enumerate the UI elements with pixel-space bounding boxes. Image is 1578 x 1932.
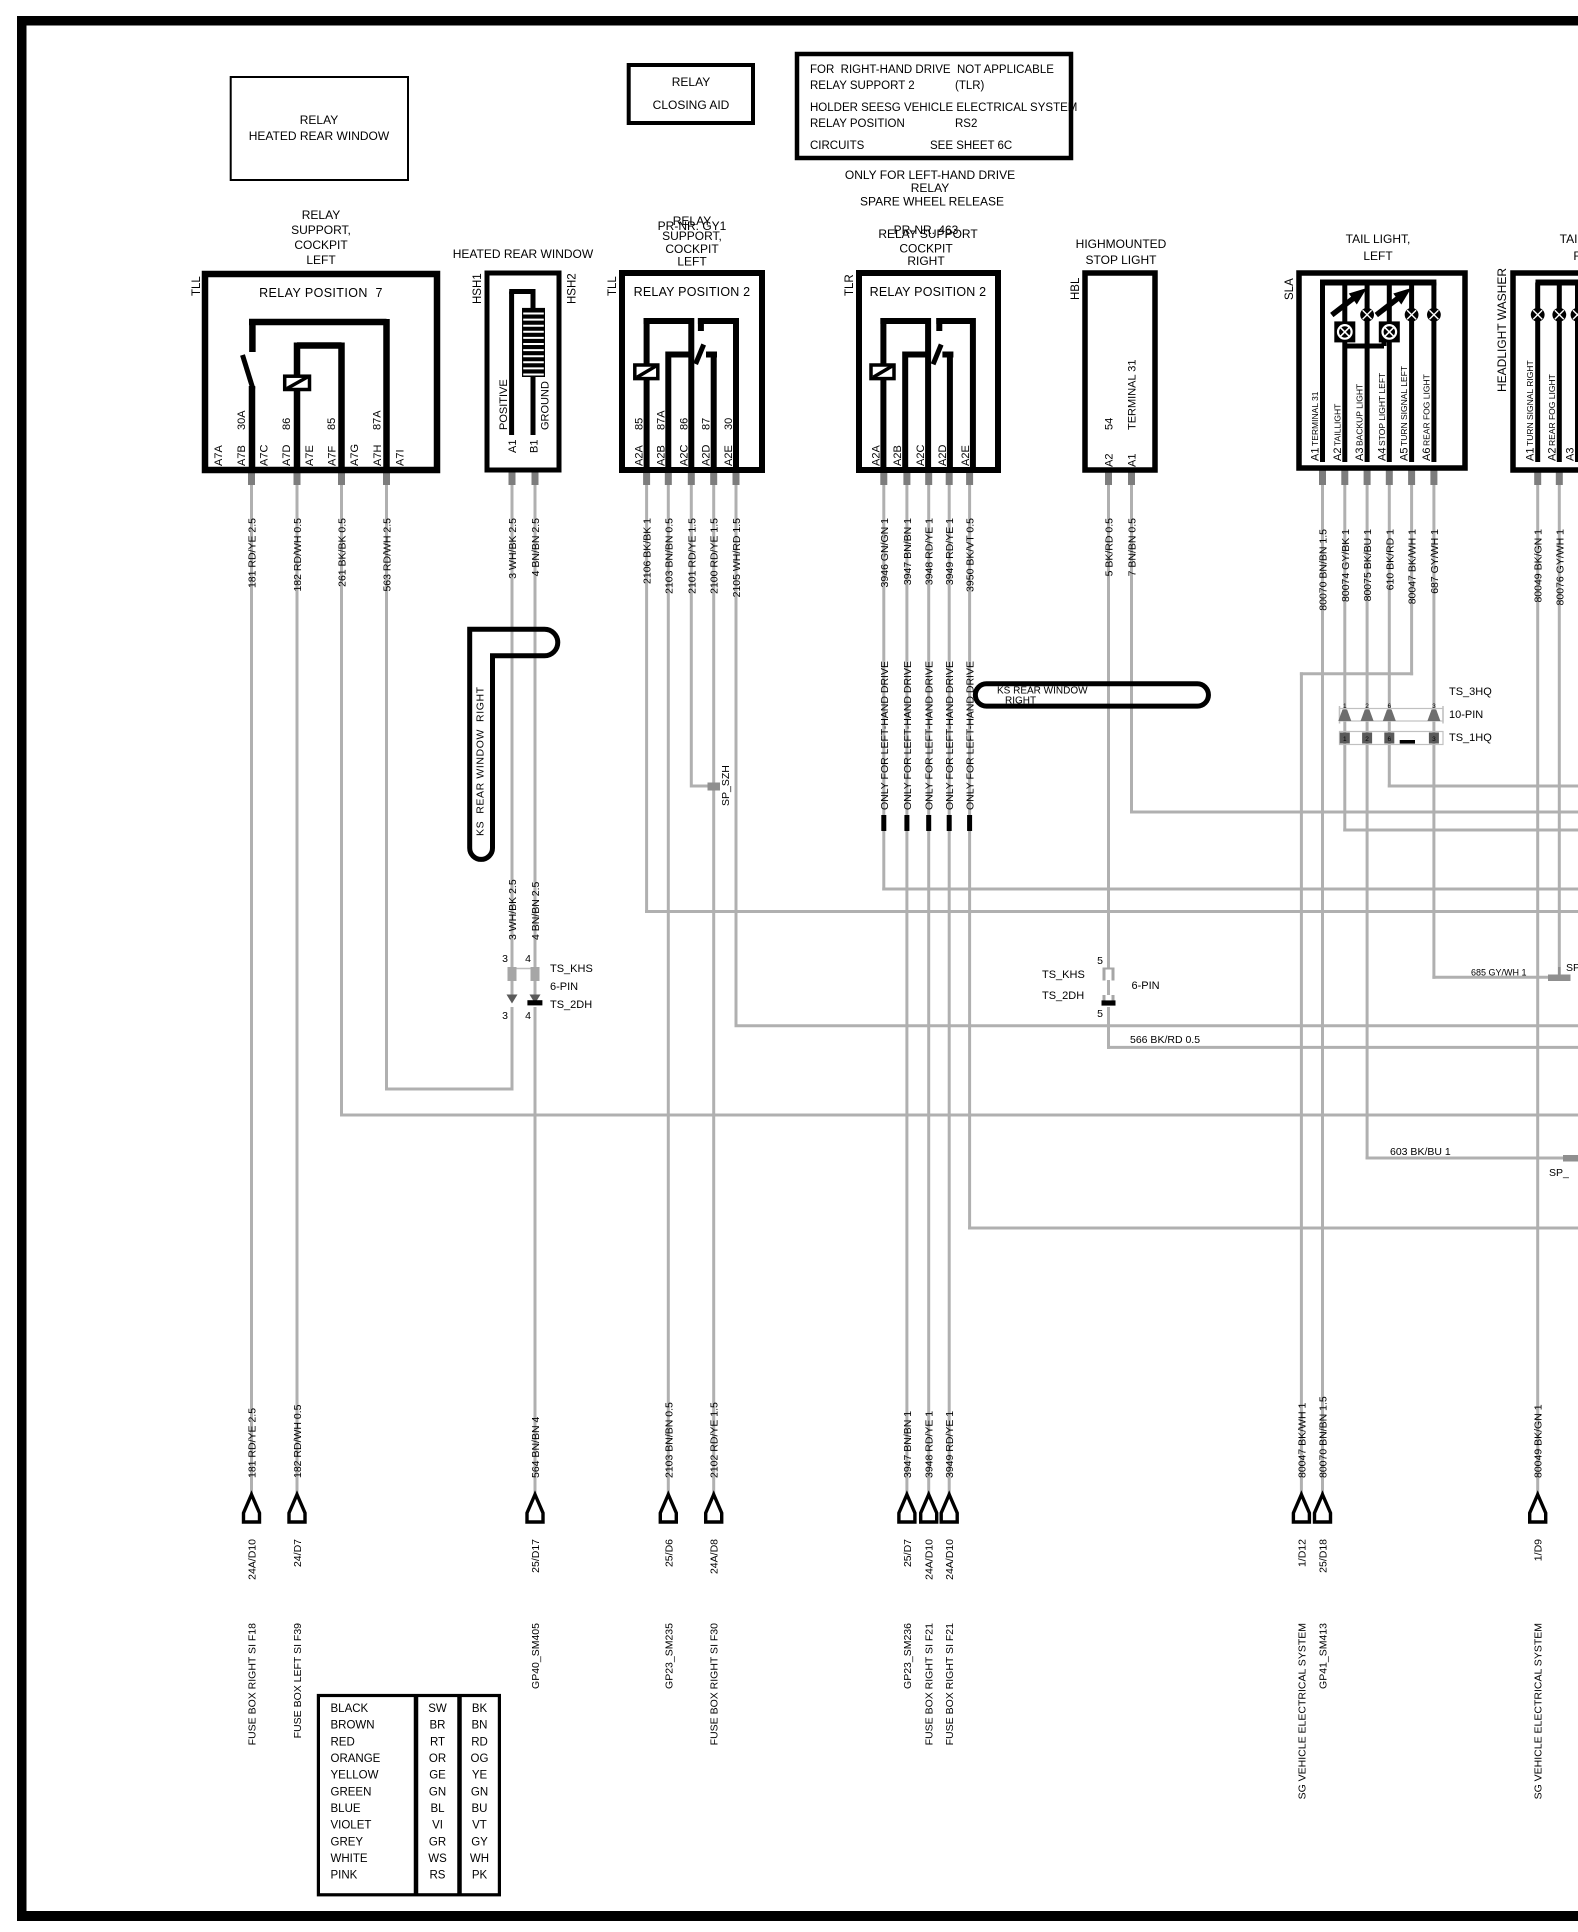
svg-text:5: 5 [1097, 955, 1103, 967]
svg-text:86: 86 [281, 418, 293, 430]
wire 610 BK/RD vertical+horizontal [1388, 484, 1391, 788]
pin line A3 SLA [1365, 283, 1370, 463]
turn signal arrow A2 [1332, 298, 1354, 315]
svg-text:RELAY POSITION 7: RELAY POSITION 7 [259, 286, 383, 300]
pin line A6 SLA [1431, 283, 1436, 463]
splice 603 right edge [1563, 1155, 1578, 1162]
svg-text:FUSE BOX RIGHT SI F30: FUSE BOX RIGHT SI F30 [709, 1623, 721, 1745]
svg-text:3950 BK/VT 0.5: 3950 BK/VT 0.5 [965, 518, 977, 592]
connector TS_2DH 3/4 [507, 995, 518, 1004]
svg-text:A2A: A2A [634, 445, 646, 466]
svg-text:FUSE BOX LEFT SI F39: FUSE BOX LEFT SI F39 [292, 1623, 304, 1739]
svg-text:CIRCUITS: CIRCUITS [810, 140, 865, 152]
svg-text:30: 30 [723, 418, 735, 430]
svg-text:GR: GR [429, 1836, 446, 1848]
backup light bulb A3 [1360, 308, 1374, 322]
svg-text:24A/D8: 24A/D8 [709, 1539, 721, 1574]
note box relay heated rear window [231, 77, 408, 180]
svg-text:261 BK/BK 0.5: 261 BK/BK 0.5 [337, 518, 349, 587]
connector TS_KHS 5 [1103, 968, 1106, 981]
svg-text:TURN SIGNAL LEFT: TURN SIGNAL LEFT [1399, 366, 1409, 446]
wire 5 BK/RD vertical [1107, 484, 1110, 968]
svg-text:A2E: A2E [723, 445, 735, 466]
svg-text:SEE SHEET 6C: SEE SHEET 6C [930, 140, 1012, 152]
wire 182 RD/WH vertical [296, 484, 299, 1496]
svg-text:24A/D10: 24A/D10 [944, 1539, 956, 1580]
contact 87A box3 [666, 352, 692, 358]
svg-text:3947 BN/BN 1: 3947 BN/BN 1 [902, 1411, 914, 1478]
box TLL relay position 7 [205, 274, 437, 470]
coil box1 [285, 376, 310, 389]
svg-text:3: 3 [1432, 736, 1436, 743]
svg-text:RELAY: RELAY [300, 113, 338, 127]
svg-text:2103 BN/BN 0.5: 2103 BN/BN 0.5 [663, 518, 675, 594]
svg-text:A2C: A2C [915, 445, 927, 466]
coil circuit box4 [880, 318, 886, 467]
svg-text:HEATED REAR WINDOW: HEATED REAR WINDOW [453, 247, 594, 261]
svg-text:HIGHMOUNTED: HIGHMOUNTED [1076, 237, 1167, 251]
svg-text:A3: A3 [1565, 448, 1577, 461]
svg-text:A3: A3 [1354, 448, 1366, 461]
svg-text:2103 BN/BN 0.5: 2103 BN/BN 0.5 [663, 1402, 675, 1478]
contact 87 box4 [942, 352, 953, 358]
svg-text:SW: SW [428, 1703, 447, 1715]
svg-text:A7A: A7A [213, 445, 225, 466]
svg-text:181 RD/YE 2.5: 181 RD/YE 2.5 [247, 518, 259, 588]
pin line A4 SLA [1387, 283, 1392, 463]
svg-text:A2B: A2B [655, 445, 667, 466]
wire 80047 BK/WH vertical jog left and down [1410, 484, 1413, 675]
svg-text:RIGHT: RIGHT [1573, 249, 1578, 263]
svg-text:TLL: TLL [191, 276, 203, 296]
svg-text:7 BN/BN 0.5: 7 BN/BN 0.5 [1127, 518, 1139, 577]
svg-text:ONLY FOR LEFT-HAND DRIVE: ONLY FOR LEFT-HAND DRIVE [965, 661, 977, 810]
svg-text:A2D: A2D [701, 445, 713, 466]
svg-text:ONLY FOR LEFT-HAND DRIVE: ONLY FOR LEFT-HAND DRIVE [845, 168, 1015, 182]
turn signal bulb A5 [1405, 308, 1419, 322]
svg-text:30A: 30A [236, 410, 248, 430]
svg-text:REAR FOG LIGHT: REAR FOG LIGHT [1421, 374, 1431, 446]
svg-text:TS_3HQ: TS_3HQ [1449, 686, 1492, 698]
turn signal bulb right A1 [1531, 308, 1545, 322]
backup bulb right A3 [1571, 308, 1578, 322]
svg-text:1/D9: 1/D9 [1533, 1539, 1545, 1561]
svg-text:RELAY POSITION: RELAY POSITION [810, 118, 905, 130]
svg-text:BR: BR [430, 1720, 446, 1732]
svg-text:SP_SZH: SP_SZH [720, 765, 732, 806]
svg-text:A7F: A7F [326, 446, 338, 466]
svg-text:LEFT: LEFT [677, 255, 707, 269]
wire 3949 RD/YE vertical [948, 484, 951, 1496]
svg-text:24/D7: 24/D7 [292, 1539, 304, 1567]
coil box4 [871, 365, 894, 379]
connector TS_2DH 5 [1103, 995, 1106, 1003]
wire 7 BN/BN vertical+horizontal [1130, 484, 1133, 814]
svg-text:ORANGE: ORANGE [331, 1753, 381, 1765]
svg-text:86: 86 [678, 418, 690, 430]
svg-text:TS_KHS: TS_KHS [1042, 969, 1085, 981]
wire 2101 RD/YE vertical + jog to SP_SZH [690, 484, 693, 788]
svg-text:A7B: A7B [236, 445, 248, 466]
svg-text:SG VEHICLE ELECTRICAL SYSTEM: SG VEHICLE ELECTRICAL SYSTEM [1296, 1623, 1308, 1799]
svg-text:A2A: A2A [870, 445, 882, 466]
svg-text:85: 85 [326, 418, 338, 430]
box TLL relay position 2 [622, 273, 762, 470]
svg-text:3946 GN/GN 1: 3946 GN/GN 1 [879, 518, 891, 588]
svg-text:STOP LIGHT: STOP LIGHT [1086, 253, 1158, 267]
bus 87A box1 [249, 319, 387, 326]
svg-text:2105 WH/RD 1.5: 2105 WH/RD 1.5 [731, 518, 743, 598]
svg-text:80075 BK/BU 1: 80075 BK/BU 1 [1362, 529, 1374, 602]
svg-text:A2E: A2E [960, 445, 972, 466]
svg-text:GN: GN [429, 1786, 446, 1798]
svg-text:A7E: A7E [304, 445, 316, 466]
svg-text:TS_KHS: TS_KHS [550, 963, 593, 975]
svg-text:HSH1: HSH1 [472, 273, 484, 304]
wire 687 GY/WH vertical+horizontal to splice [1432, 484, 1435, 979]
svg-text:563 RD/WH 2.5: 563 RD/WH 2.5 [382, 518, 394, 592]
wire 80076 GY/WH vertical to splice [1558, 484, 1561, 977]
svg-text:RS2: RS2 [955, 118, 977, 130]
svg-text:TS_2DH: TS_2DH [550, 999, 592, 1011]
svg-text:1: 1 [1343, 736, 1347, 743]
svg-text:BLACK: BLACK [331, 1703, 369, 1715]
svg-text:BK: BK [472, 1703, 488, 1715]
svg-text:TERMINAL 31: TERMINAL 31 [1127, 359, 1139, 430]
pin line A2 right [1557, 283, 1562, 463]
contact 87 box3 [706, 352, 717, 358]
svg-text:ONLY FOR LEFT-HAND DRIVE: ONLY FOR LEFT-HAND DRIVE [944, 661, 956, 810]
pin stubs [248, 470, 255, 485]
svg-text:PK: PK [472, 1870, 488, 1882]
wire 80074 GY/BK vertical+horizontal [1343, 484, 1346, 832]
wire 2103 BN/BN vertical [667, 484, 670, 1496]
wire 261 BK/BK vertical+horizontal [340, 484, 343, 1115]
svg-text:HEADLIGHT WASHER: HEADLIGHT WASHER [1495, 268, 1509, 392]
element ground lead [531, 377, 536, 435]
svg-text:COCKPIT: COCKPIT [294, 238, 348, 252]
svg-text:3949 RD/YE 1: 3949 RD/YE 1 [944, 1411, 956, 1478]
pin line A2 SLA with taillight bulb [1342, 283, 1347, 463]
svg-text:YELLOW: YELLOW [331, 1770, 379, 1782]
svg-text:FUSE BOX RIGHT SI F18: FUSE BOX RIGHT SI F18 [247, 1623, 259, 1745]
connector TS_3HQ 10-PIN [1340, 709, 1444, 722]
wire 566 BK/RD vertical+horizontal [1107, 1007, 1110, 1049]
svg-text:RELAY: RELAY [911, 181, 949, 195]
svg-text:SPARE WHEEL RELEASE: SPARE WHEEL RELEASE [860, 195, 1004, 209]
svg-text:TLL: TLL [607, 276, 619, 296]
svg-text:BACKUP LIGHT: BACKUP LIGHT [1355, 384, 1365, 446]
box HBL highmounted stop light [1085, 273, 1155, 470]
svg-text:A2: A2 [1104, 454, 1116, 467]
svg-text:3: 3 [1432, 703, 1436, 710]
svg-text:B1: B1 [528, 440, 540, 453]
svg-text:A1: A1 [507, 440, 519, 453]
coil box3 [635, 365, 658, 379]
svg-text:87A: 87A [655, 410, 667, 430]
svg-text:A1: A1 [1525, 448, 1537, 461]
svg-text:6-PIN: 6-PIN [1132, 980, 1160, 992]
stop light bulb A4 [1379, 321, 1400, 342]
svg-text:GREY: GREY [331, 1836, 364, 1848]
svg-text:REAR FOG LIGHT: REAR FOG LIGHT [1547, 374, 1557, 446]
svg-text:OR: OR [429, 1753, 446, 1765]
wire 2106 BK/BK vertical+horizontal [645, 484, 648, 913]
svg-text:6: 6 [1387, 703, 1391, 710]
box TLR relay position 2 [859, 273, 998, 470]
svg-text:GY: GY [471, 1836, 488, 1848]
svg-text:25/D7: 25/D7 [902, 1539, 914, 1567]
svg-text:A2: A2 [1332, 448, 1344, 461]
svg-text:GP41_SM413: GP41_SM413 [1318, 1623, 1330, 1689]
svg-text:4 BN/BN 2.5: 4 BN/BN 2.5 [530, 881, 542, 940]
switch lever box4 [936, 318, 942, 331]
rear fog light bulb A6 [1427, 308, 1441, 322]
wire 3 WH/BK vertical [511, 484, 514, 968]
svg-text:182 RD/WH 0.5: 182 RD/WH 0.5 [292, 1404, 304, 1478]
svg-text:687 GY/WH 1: 687 GY/WH 1 [1429, 529, 1441, 594]
box SLA tail light left [1299, 273, 1465, 468]
wire 80075/603 BK/BU vertical+horizontal [1366, 484, 1369, 1160]
svg-text:VT: VT [472, 1820, 487, 1832]
svg-text:HSH2: HSH2 [567, 273, 579, 304]
wire 3950 BK/VT vertical+horizontal [968, 484, 971, 1230]
svg-text:A7H: A7H [372, 445, 384, 466]
svg-text:BU: BU [472, 1803, 488, 1815]
svg-text:685 GY/WH 1: 685 GY/WH 1 [1471, 968, 1527, 978]
svg-text:2: 2 [1365, 736, 1369, 743]
svg-text:WS: WS [428, 1853, 447, 1865]
svg-text:2100 RD/YE 1.5: 2100 RD/YE 1.5 [709, 518, 721, 594]
heating element resistor [522, 308, 545, 377]
svg-text:564 BN/BN 4: 564 BN/BN 4 [530, 1417, 542, 1478]
pin line A1 right [1535, 283, 1540, 463]
svg-text:ONLY FOR LEFT-HAND DRIVE: ONLY FOR LEFT-HAND DRIVE [902, 661, 914, 810]
svg-text:RELAY SUPPORT 2: RELAY SUPPORT 2 [810, 80, 915, 92]
svg-text:4: 4 [525, 1010, 531, 1022]
svg-text:80047 BK/WH 1: 80047 BK/WH 1 [1296, 1403, 1308, 1478]
box tail light right [1513, 273, 1578, 470]
svg-text:RIGHT: RIGHT [1005, 696, 1036, 707]
wire 563 RD/WH vertical [385, 484, 388, 1091]
svg-text:HBL: HBL [1070, 277, 1082, 300]
svg-text:FOR RIGHT-HAND DRIVE NOT APP: FOR RIGHT-HAND DRIVE NOT APPLICABLE [810, 64, 1054, 76]
svg-text:A6: A6 [1421, 448, 1433, 461]
wire 563 to TS_2DH pin3 link [385, 1088, 514, 1091]
svg-text:A1: A1 [1310, 448, 1322, 461]
color legend table [318, 1696, 499, 1895]
wire 2100/2102 RD/YE vertical [712, 484, 715, 1496]
svg-text:RT: RT [430, 1736, 445, 1748]
svg-text:87A: 87A [371, 410, 383, 430]
wire 2105 WH/RD vertical+horizontal [735, 484, 738, 1027]
svg-text:TS_2DH: TS_2DH [1042, 990, 1084, 1002]
element positive lead [509, 292, 514, 436]
svg-text:BN: BN [472, 1720, 488, 1732]
wire 3946 GN/GN vertical+horizontal [882, 484, 885, 891]
svg-text:80074 GY/BK 1: 80074 GY/BK 1 [1340, 529, 1352, 602]
svg-text:GROUND: GROUND [540, 381, 552, 430]
wire 4 BN/BN vertical [534, 484, 537, 968]
svg-text:3949 RD/YE 1: 3949 RD/YE 1 [944, 518, 956, 585]
svg-text:SUPPORT,: SUPPORT, [291, 223, 351, 237]
balloon KS REAR WINDOW RIGHT horizontal [975, 684, 1208, 706]
svg-text:(TLR): (TLR) [955, 80, 985, 92]
svg-text:10-PIN: 10-PIN [1449, 709, 1483, 721]
wire 80049 BK/GN vertical [1536, 484, 1539, 1496]
svg-text:GN: GN [471, 1786, 488, 1798]
svg-text:24A/D10: 24A/D10 [924, 1539, 936, 1580]
svg-text:80047 BK/WH 1: 80047 BK/WH 1 [1407, 529, 1419, 604]
splice SP_SZH [708, 783, 721, 791]
svg-text:FUSE BOX RIGHT SI F21: FUSE BOX RIGHT SI F21 [924, 1623, 936, 1745]
switch lever box3 [698, 318, 704, 331]
rear fog bulb right A2 [1552, 308, 1566, 322]
svg-text:A2C: A2C [678, 445, 690, 466]
svg-text:HOLDER SEESG VEHICLE ELECTRICA: HOLDER SEESG VEHICLE ELECTRICAL SYSTEM [810, 102, 1077, 114]
svg-text:6: 6 [1387, 736, 1391, 743]
svg-text:VI: VI [432, 1820, 443, 1832]
svg-text:603 BK/BU 1: 603 BK/BU 1 [1390, 1146, 1451, 1158]
svg-text:A1: A1 [1127, 454, 1139, 467]
svg-text:GE: GE [429, 1770, 446, 1782]
switch contact 30A box1 [249, 319, 256, 352]
svg-text:3 WH/BK 2.5: 3 WH/BK 2.5 [507, 879, 519, 940]
bus 85-86 box1 [297, 342, 342, 349]
svg-text:1: 1 [1343, 703, 1347, 710]
svg-text:3948 RD/YE 1: 3948 RD/YE 1 [924, 518, 936, 585]
svg-text:WH: WH [470, 1853, 489, 1865]
svg-text:80049 BK/GN 1: 80049 BK/GN 1 [1533, 1404, 1545, 1478]
bus SLA [1320, 280, 1436, 286]
svg-text:A7D: A7D [281, 445, 293, 466]
contact 87A box4 [903, 352, 928, 358]
svg-text:LEFT: LEFT [306, 253, 336, 267]
svg-text:STOP LIGHT LEFT: STOP LIGHT LEFT [1377, 373, 1387, 446]
svg-text:181 RD/YE 2.5: 181 RD/YE 2.5 [247, 1408, 259, 1478]
svg-text:80070 BN/BN 1.5: 80070 BN/BN 1.5 [1318, 529, 1330, 611]
svg-text:VIOLET: VIOLET [331, 1820, 372, 1832]
svg-text:RELAY POSITION 2: RELAY POSITION 2 [634, 285, 751, 299]
wire 80070 BN/BN vertical [1321, 484, 1324, 1496]
taillight bulb A2 [1334, 321, 1355, 342]
pin line A5 SLA [1409, 283, 1414, 463]
svg-text:182 RD/WH 0.5: 182 RD/WH 0.5 [292, 518, 304, 592]
wire 3947 BN/BN vertical [905, 484, 908, 1496]
note box relay closing aid [629, 65, 753, 123]
svg-text:TS_1HQ: TS_1HQ [1449, 732, 1492, 744]
svg-text:5: 5 [1097, 1008, 1103, 1020]
svg-text:SP_: SP_ [1566, 962, 1578, 974]
svg-text:A2B: A2B [892, 445, 904, 466]
svg-text:54: 54 [1104, 418, 1116, 430]
svg-text:BL: BL [430, 1803, 445, 1815]
svg-text:A5: A5 [1399, 448, 1411, 461]
svg-text:ONLY FOR LEFT-HAND DRIVE: ONLY FOR LEFT-HAND DRIVE [924, 661, 936, 810]
LHD tick marks [881, 815, 886, 831]
svg-text:RELAY: RELAY [302, 208, 340, 222]
svg-text:ONLY FOR LEFT-HAND DRIVE: ONLY FOR LEFT-HAND DRIVE [879, 661, 891, 810]
svg-text:25/D17: 25/D17 [530, 1539, 542, 1573]
svg-text:6-PIN: 6-PIN [550, 981, 578, 993]
svg-text:RS: RS [430, 1870, 446, 1882]
svg-text:TAILLIGHT: TAILLIGHT [1332, 404, 1342, 446]
connector TS_1HQ [1340, 732, 1444, 745]
svg-text:POSITIVE: POSITIVE [498, 379, 510, 430]
taillight link bus SLA [1345, 344, 1384, 349]
svg-text:2102 RD/YE 1.5: 2102 RD/YE 1.5 [709, 1402, 721, 1478]
svg-text:3947 BN/BN 1: 3947 BN/BN 1 [902, 518, 914, 585]
wire 564 BN/BN vertical [534, 1007, 537, 1496]
svg-text:A7G: A7G [349, 444, 361, 466]
svg-text:TURN SIGNAL RIGHT: TURN SIGNAL RIGHT [1525, 360, 1535, 446]
bus tail light right [1536, 280, 1578, 286]
svg-text:85: 85 [634, 418, 646, 430]
bottom connector triangles [244, 1495, 260, 1523]
svg-text:80070 BN/BN 1.5: 80070 BN/BN 1.5 [1318, 1396, 1330, 1478]
svg-text:25/D6: 25/D6 [663, 1539, 675, 1567]
svg-text:4: 4 [525, 953, 531, 965]
svg-text:TERMINAL 31: TERMINAL 31 [1310, 391, 1320, 446]
svg-text:A7I: A7I [394, 449, 406, 466]
svg-text:A2D: A2D [937, 445, 949, 466]
svg-text:GP40_SM405: GP40_SM405 [530, 1623, 542, 1689]
svg-text:2: 2 [1365, 703, 1369, 710]
pin line A3 right [1575, 283, 1578, 463]
svg-text:RELAY SUPPORT: RELAY SUPPORT [878, 227, 978, 241]
turn signal arrow A4 [1376, 298, 1398, 315]
svg-text:80049 BK/GN 1: 80049 BK/GN 1 [1533, 529, 1545, 603]
svg-text:PINK: PINK [331, 1870, 358, 1882]
svg-text:RELAY: RELAY [672, 75, 710, 89]
svg-text:WHITE: WHITE [331, 1853, 368, 1865]
svg-text:566 BK/RD 0.5: 566 BK/RD 0.5 [1130, 1034, 1200, 1046]
svg-text:3: 3 [502, 953, 508, 965]
svg-text:1/D12: 1/D12 [1296, 1539, 1308, 1567]
svg-text:RIGHT: RIGHT [907, 254, 945, 268]
svg-text:TAIL LIGHT,: TAIL LIGHT, [1560, 232, 1578, 246]
svg-text:80076 GY/WH 1: 80076 GY/WH 1 [1554, 529, 1566, 606]
box HSH heated rear window [487, 273, 559, 470]
svg-text:FUSE BOX RIGHT SI F21: FUSE BOX RIGHT SI F21 [944, 1623, 956, 1745]
svg-text:RELAY POSITION 2: RELAY POSITION 2 [870, 285, 987, 299]
svg-text:BROWN: BROWN [331, 1720, 375, 1732]
svg-text:24A/D10: 24A/D10 [247, 1539, 259, 1580]
svg-text:YE: YE [472, 1770, 488, 1782]
balloon KS REAR WINDOW RIGHT vertical [470, 629, 558, 859]
pin line A1 SLA [1320, 283, 1325, 463]
svg-text:LEFT: LEFT [1363, 249, 1393, 263]
connector TS_KHS 3/4 [508, 968, 539, 970]
svg-text:SG VEHICLE ELECTRICAL SYSTEM: SG VEHICLE ELECTRICAL SYSTEM [1533, 1623, 1545, 1799]
svg-text:GREEN: GREEN [331, 1786, 372, 1798]
svg-text:2106 BK/BK 1: 2106 BK/BK 1 [642, 518, 654, 584]
svg-text:A4: A4 [1376, 448, 1388, 461]
svg-text:OG: OG [471, 1753, 489, 1765]
svg-text:A2: A2 [1546, 448, 1558, 461]
svg-text:TAIL LIGHT,: TAIL LIGHT, [1346, 232, 1411, 246]
svg-text:TLR: TLR [844, 274, 856, 296]
svg-text:GP23_SM236: GP23_SM236 [902, 1623, 914, 1689]
svg-text:GP23_SM235: GP23_SM235 [663, 1623, 675, 1689]
svg-text:SP_: SP_ [1549, 1167, 1569, 1179]
svg-text:BLUE: BLUE [331, 1803, 361, 1815]
svg-text:5 BK/RD 0.5: 5 BK/RD 0.5 [1104, 518, 1116, 577]
svg-text:3948 RD/YE 1: 3948 RD/YE 1 [924, 1411, 936, 1478]
svg-text:KS REAR WINDOW RIGHT: KS REAR WINDOW RIGHT [475, 686, 487, 836]
svg-text:CLOSING AID: CLOSING AID [653, 98, 730, 112]
svg-text:4 BN/BN 2.5: 4 BN/BN 2.5 [530, 518, 542, 577]
